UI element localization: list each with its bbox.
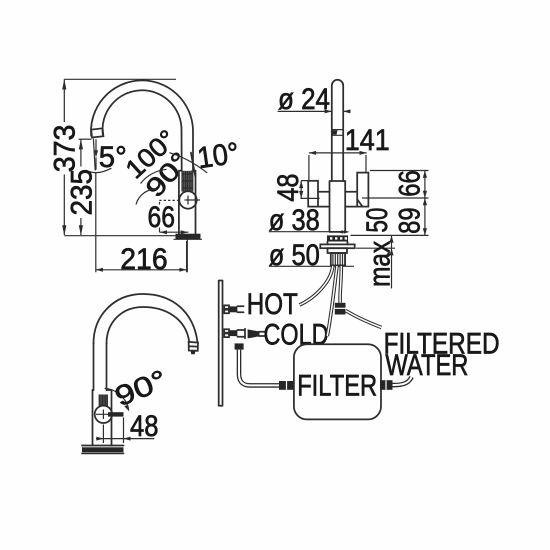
circle center ticks <box>185 196 201 205</box>
body hatch bottom view <box>99 395 108 407</box>
body step bottom view <box>93 389 112 391</box>
48 bottom arrows <box>96 437 130 441</box>
handle circle bottom view <box>95 406 112 423</box>
90 degree arc bottom view <box>105 388 129 409</box>
svg-text:48: 48 <box>130 410 159 443</box>
svg-text:FILTER: FILTER <box>297 369 377 402</box>
extension line 66-89 mid <box>362 197 429 199</box>
base plate dark <box>327 235 348 241</box>
filter box <box>294 344 381 419</box>
373 arrows <box>62 79 66 235</box>
base flange dark bar <box>176 234 201 240</box>
svg-text:WATER: WATER <box>385 349 468 382</box>
10-degree arc <box>169 153 207 173</box>
tailpiece line below base <box>186 240 188 273</box>
spout outer arc bottom view <box>94 294 198 344</box>
right handle cap <box>357 173 368 207</box>
arrow on 5-degree line <box>94 150 98 157</box>
faucet hose cold <box>327 266 337 336</box>
circle ticks bottom view <box>96 410 112 420</box>
base outline bottom view <box>82 446 124 454</box>
dia50 leader underline <box>269 265 354 267</box>
dimension 235 vertical line <box>80 139 82 235</box>
cold cone fitting <box>248 329 260 338</box>
spout tube front <box>332 80 343 181</box>
shank threads <box>333 253 345 265</box>
dimension 216 <box>96 172 187 272</box>
90-degree arc <box>141 169 167 183</box>
dimension line 66-89 column <box>424 171 426 236</box>
cold tee fitting <box>229 330 237 336</box>
cross arms <box>318 192 357 207</box>
svg-text:89: 89 <box>393 207 426 234</box>
100-degree arc <box>136 189 156 205</box>
filter inlet fitting <box>279 381 295 390</box>
filtered water outlet pipe <box>393 377 412 385</box>
90 arc arrowhead <box>124 405 129 412</box>
filtered hose coupler <box>335 303 346 315</box>
left tube bottom view <box>94 344 107 391</box>
5-degree vertical reference line with down arrow <box>95 139 97 170</box>
svg-text:141: 141 <box>345 124 390 157</box>
dimension 66 side view <box>160 202 189 232</box>
body bottom view <box>93 390 112 446</box>
dia24 arrows <box>325 109 351 113</box>
right cap chamfer <box>357 199 362 206</box>
svg-text:50: 50 <box>361 208 394 233</box>
svg-text:66: 66 <box>148 201 176 234</box>
cold valve body <box>224 329 229 337</box>
dimension 48 front <box>301 181 320 199</box>
base flange outline <box>174 238 203 240</box>
extension line 66 top <box>370 170 429 172</box>
seam tick <box>332 130 338 134</box>
handle joint circle <box>179 191 196 208</box>
lever dark bar bottom view <box>108 412 124 416</box>
svg-text:COLD: COLD <box>264 318 329 351</box>
base plate white dots <box>330 237 347 239</box>
dashed lever (rotated position) <box>159 199 179 201</box>
spout inner arc bottom view <box>107 307 190 344</box>
dimension 141 <box>309 153 367 180</box>
svg-text:235: 235 <box>65 169 98 216</box>
filter outlet fitting <box>380 380 393 390</box>
hot valve nut <box>229 306 237 312</box>
extension line counter bottom <box>356 247 395 249</box>
373 top extension line <box>64 78 176 80</box>
svg-text:66: 66 <box>393 170 426 197</box>
dimension 373 vertical line <box>63 79 65 235</box>
base dark bar bottom view <box>82 447 124 452</box>
aerator tip block <box>91 128 103 137</box>
spout outer arc <box>91 80 193 171</box>
faucet body side view <box>179 171 196 234</box>
threaded hatch section <box>182 171 193 192</box>
svg-text:48: 48 <box>272 174 305 202</box>
extension line counter top <box>351 234 429 236</box>
down pipe to filter <box>239 350 282 386</box>
5-degree arc <box>86 168 112 172</box>
spout nozzle bottom view <box>191 351 196 354</box>
66-89 arrows <box>423 171 427 236</box>
max 50 arrows <box>389 235 393 255</box>
small width arrows above base <box>337 230 349 233</box>
base mid section <box>328 242 348 245</box>
max 50 dimension line <box>391 235 393 288</box>
escutcheon flange <box>320 244 354 248</box>
66 arrows <box>160 230 188 234</box>
countertop line <box>64 235 196 237</box>
threaded shank <box>331 253 345 265</box>
hose from coupler to filtered water <box>346 311 382 328</box>
216 arrows <box>96 268 187 272</box>
svg-text:max: max <box>364 241 397 287</box>
5-degree tilted axis line <box>93 139 95 171</box>
wall line <box>219 281 223 406</box>
left handle cap <box>308 181 318 207</box>
235 arrows <box>79 139 83 235</box>
48 front arrows <box>299 181 303 198</box>
svg-text:HOT: HOT <box>247 288 298 321</box>
tee down nut <box>235 343 244 349</box>
svg-text:10°: 10° <box>195 137 241 175</box>
lower block <box>328 248 348 253</box>
spout tip block bottom view <box>189 342 198 351</box>
141 arrows <box>309 151 367 155</box>
dimension 48 bottom view <box>96 418 154 444</box>
hot pipe fork <box>237 306 243 312</box>
235 extension line at tip <box>79 138 92 140</box>
dia24 leader underline <box>278 110 351 112</box>
hot valve body <box>224 305 229 313</box>
faucet hose hot <box>300 266 333 305</box>
10-degree tilted line <box>191 153 195 177</box>
coupler white line <box>335 307 346 309</box>
faucet hose filtered <box>340 266 341 303</box>
svg-text:5°: 5° <box>99 141 127 174</box>
svg-text:373: 373 <box>48 125 81 173</box>
svg-text:216: 216 <box>120 243 167 276</box>
cross center block <box>330 181 346 232</box>
tube seam detail <box>332 130 343 136</box>
spout inner arc <box>103 90 182 171</box>
dia38 leader underline <box>269 231 332 233</box>
cold tee body <box>237 329 245 339</box>
cold pipe stub <box>259 332 267 336</box>
